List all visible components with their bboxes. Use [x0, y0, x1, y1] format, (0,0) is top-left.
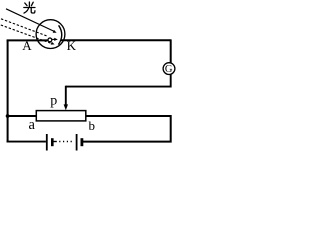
galvanometer U1 circle — [163, 63, 175, 75]
svg-text:a: a — [29, 117, 36, 133]
svg-text:b: b — [89, 118, 96, 133]
wire: from G bottom down and left to wiper riser — [66, 75, 171, 87]
ray 3 arrowhead — [51, 42, 55, 45]
svg-text:A: A — [22, 38, 32, 53]
battery cell 2 short plate — [81, 138, 84, 146]
anode ring A — [48, 38, 52, 42]
battery dotted (omitted cells) — [53, 141, 57, 143]
wire: wiper riser vertical — [65, 86, 67, 106]
svg-text:G: G — [165, 64, 173, 75]
wire: top horizontal from corner to anode (A lead) — [7, 39, 48, 41]
light ray 3 (dashed) — [1, 25, 51, 43]
potentiometer P body — [36, 111, 86, 121]
battery cell 1 short plate — [51, 138, 54, 146]
ray 2 arrowhead — [52, 38, 55, 40]
phototube envelope circle — [36, 20, 65, 49]
svg-text:p: p — [50, 93, 57, 108]
svg-text:K: K — [67, 38, 77, 53]
light ray 1 (solid) — [6, 9, 54, 32]
light ray 2 (dashed) — [1, 19, 48, 36]
ray 1 arrowhead — [53, 30, 57, 33]
wire: a-side lead — [7, 115, 37, 117]
battery cell 2 long plate — [76, 134, 78, 151]
wire: left vertical from top-left corner down to battery row — [7, 40, 9, 143]
battery cell 1 long plate — [46, 134, 48, 151]
wire: bottom-left horizontal to battery — [7, 141, 46, 143]
wiper arrow of potentiometer P — [64, 104, 68, 110]
label 光 drawn as strokes — [24, 2, 35, 13]
cathode K plate arc — [58, 25, 61, 44]
node junction on left wire — [6, 114, 10, 118]
wire: right vertical down to galvanometer — [170, 39, 172, 63]
wire: b-side lead right, down and to battery + — [83, 116, 171, 142]
wire: K lead from plate to top-right corner — [61, 39, 171, 41]
